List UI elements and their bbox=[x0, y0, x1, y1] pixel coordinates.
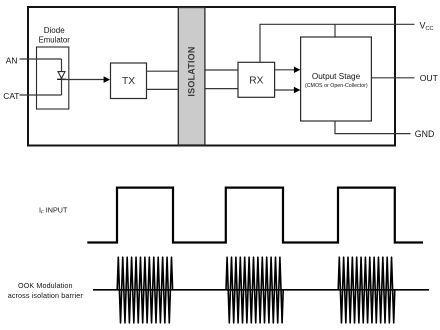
diode D1 bbox=[57, 72, 66, 80]
diode branch wire bbox=[61, 59, 63, 95]
svg-text:(CMOS or Open-Collector): (CMOS or Open-Collector) bbox=[305, 83, 368, 89]
svg-text:AN: AN bbox=[6, 56, 18, 66]
svg-text:Diode: Diode bbox=[44, 26, 65, 35]
diode emulator box bbox=[37, 47, 69, 109]
arrowhead lower bbox=[294, 87, 301, 93]
svg-text:OUT: OUT bbox=[420, 73, 439, 83]
svg-text:Emulator: Emulator bbox=[39, 36, 71, 45]
TX block bbox=[111, 63, 147, 99]
wire TX to barrier (upper) bbox=[147, 70, 179, 72]
wire diode to TX bbox=[62, 79, 104, 81]
OOK carrier baseline wire bbox=[93, 289, 429, 291]
Vcc drop to output stage bbox=[334, 24, 336, 37]
IF input square waveform bbox=[87, 188, 423, 243]
svg-text:TX: TX bbox=[122, 76, 135, 87]
OUT wire bbox=[371, 77, 414, 79]
svg-text:ISOLATION: ISOLATION bbox=[187, 46, 197, 96]
OOK burst 2 bbox=[226, 257, 283, 323]
svg-text:RX: RX bbox=[249, 75, 263, 86]
RX block bbox=[238, 62, 275, 97]
GND net wire bbox=[335, 121, 411, 134]
svg-text:IF INPUT: IF INPUT bbox=[39, 205, 68, 214]
svg-text:Output Stage: Output Stage bbox=[312, 72, 361, 81]
svg-text:GND: GND bbox=[415, 129, 435, 139]
svg-text:across isolation barrier: across isolation barrier bbox=[8, 291, 84, 300]
wire RX to output stage (upper) bbox=[275, 69, 294, 71]
wire TX to barrier (lower) bbox=[147, 88, 179, 90]
CAT wire bbox=[20, 94, 62, 96]
wire RX to output stage (lower) bbox=[275, 89, 294, 91]
svg-text:OOK Modulation: OOK Modulation bbox=[18, 281, 73, 290]
AN wire bbox=[20, 58, 62, 60]
wire barrier to RX (lower) bbox=[205, 88, 238, 90]
OOK burst 3 bbox=[338, 257, 395, 323]
svg-text:VCC: VCC bbox=[420, 20, 434, 32]
output stage block bbox=[301, 37, 372, 121]
arrowhead into TX bbox=[104, 76, 110, 83]
Vcc net wire bbox=[260, 24, 415, 62]
outer device box bbox=[28, 7, 395, 146]
arrowhead upper bbox=[294, 67, 301, 73]
isolation barrier bar bbox=[178, 8, 205, 146]
svg-text:CAT: CAT bbox=[3, 91, 19, 101]
wire barrier to RX (upper) bbox=[205, 69, 238, 71]
OOK burst 1 bbox=[117, 257, 172, 323]
